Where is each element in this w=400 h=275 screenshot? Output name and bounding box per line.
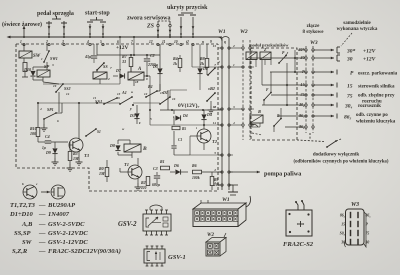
wire +12V rail <box>97 44 160 56</box>
svg-text:ukryty przycisk: ukryty przycisk <box>167 5 208 11</box>
resistor R10 <box>30 126 40 137</box>
module row y116 <box>278 115 302 117</box>
ground below T1 <box>135 183 142 190</box>
hidden pushbutton <box>178 13 196 37</box>
svg-text:3: 3 <box>232 105 235 109</box>
svg-text:86₂: 86₂ <box>340 214 346 218</box>
connector W1 label <box>218 29 226 35</box>
right label 30 <box>346 57 377 63</box>
transistor T1 <box>124 162 142 179</box>
main unit dashed border <box>16 44 218 191</box>
module switch Pr <box>278 51 288 64</box>
svg-text:Z: Z <box>263 47 267 52</box>
legend line 5 <box>22 239 88 246</box>
svg-text:86₅: 86₅ <box>299 113 305 118</box>
wire SP1 gnd <box>43 119 45 124</box>
svg-text:5: 5 <box>100 40 102 44</box>
clutch pedal switch <box>46 16 67 37</box>
switch SP1 <box>43 107 57 120</box>
ground below SP1 <box>41 124 48 131</box>
top bus wire <box>7 36 223 39</box>
svg-text:GSV-2-5VDC: GSV-2-5VDC <box>48 221 85 228</box>
svg-text:FRA2C-S2DC12V(90/30A): FRA2C-S2DC12V(90/30A) <box>48 248 121 255</box>
svg-text:30: 30 <box>346 57 353 63</box>
svg-text:2: 2 <box>213 168 216 172</box>
svg-text:15: 15 <box>301 82 305 87</box>
fuel pump arrow <box>230 171 302 178</box>
svg-text:SS,SP: SS,SP <box>14 230 31 237</box>
module relay S wires <box>252 123 260 127</box>
svg-text:oszcz. parkowania: oszcz. parkowania <box>358 72 398 77</box>
right label 865 <box>344 113 396 125</box>
tiny pin digits speckle <box>39 57 220 131</box>
right label 304 <box>344 104 381 110</box>
svg-text:b: b <box>22 182 24 186</box>
svg-text:33: 33 <box>121 59 126 64</box>
connector W2 rails <box>243 40 250 140</box>
svg-text:SP1: SP1 <box>47 107 54 112</box>
svg-text:D8: D8 <box>202 66 208 71</box>
svg-text:1M: 1M <box>99 171 105 176</box>
resistor R3 <box>42 142 79 164</box>
svg-text:—: — <box>38 202 46 209</box>
svg-text:18: 18 <box>135 80 139 84</box>
svg-text:680μ: 680μ <box>152 183 160 187</box>
relay SSr <box>93 72 107 79</box>
svg-text:start-stop: start-stop <box>85 11 110 17</box>
svg-text:12: 12 <box>144 92 148 96</box>
svg-text:+12V: +12V <box>363 49 377 55</box>
svg-text:GSV-1-12VDC: GSV-1-12VDC <box>48 239 88 246</box>
W3 pin names <box>298 47 306 129</box>
svg-text:R1: R1 <box>160 159 165 164</box>
wire T2 <box>190 125 204 150</box>
svg-text:100: 100 <box>30 131 36 136</box>
legend line 2 <box>9 211 70 218</box>
module switch B3 <box>273 114 282 127</box>
svg-text:T1: T1 <box>124 162 129 167</box>
svg-text:220: 220 <box>140 186 147 190</box>
svg-text:14: 14 <box>66 92 70 96</box>
switch A1 <box>119 90 133 105</box>
start-stop button <box>87 17 106 37</box>
svg-text:S0₆: S0₆ <box>340 232 346 236</box>
svg-text:30*: 30* <box>298 47 306 52</box>
pin numbers top edge <box>20 40 226 44</box>
relay FRA2C-S2 label <box>283 241 314 248</box>
svg-text:pedał sprzęgła: pedał sprzęgła <box>37 11 74 17</box>
wire SS relay <box>97 70 100 84</box>
svg-text:FRA2C-S2: FRA2C-S2 <box>283 241 314 248</box>
svg-text:75: 75 <box>366 232 370 236</box>
diode D3 <box>129 105 141 125</box>
svg-text:y: y <box>129 106 132 111</box>
svg-text:13: 13 <box>213 44 217 48</box>
wire SP to SS2 <box>33 62 47 82</box>
svg-text:17: 17 <box>196 105 200 109</box>
connector W3 package label <box>351 202 359 208</box>
svg-text:15: 15 <box>347 84 353 90</box>
transistor T3 <box>69 138 90 158</box>
svg-text:D5: D5 <box>152 64 158 69</box>
connector W2 label <box>240 29 248 35</box>
svg-text:t: t <box>196 126 197 130</box>
resistor R9 <box>210 172 220 190</box>
connector W3 pins <box>302 49 314 128</box>
svg-text:1k: 1k <box>173 61 177 66</box>
legend transistor pictogram left <box>22 182 38 199</box>
svg-text:A1: A1 <box>121 90 127 95</box>
svg-text:86₅: 86₅ <box>366 214 372 218</box>
legend transistor pictogram right <box>51 185 65 199</box>
svg-text:13: 13 <box>117 92 121 96</box>
svg-text:14: 14 <box>213 121 217 125</box>
svg-text:—: — <box>38 230 46 237</box>
W1-W2 links <box>233 48 239 125</box>
vert wire x134 <box>120 37 135 84</box>
svg-text:D8: D8 <box>109 143 115 148</box>
connector W3 package pin labels <box>340 214 372 245</box>
ground right of W1 a <box>228 185 238 195</box>
right label 30* <box>346 48 377 55</box>
service jumper ZS <box>157 21 171 37</box>
svg-text:3: 3 <box>51 63 54 67</box>
diode D10 <box>23 67 35 76</box>
svg-text:R5: R5 <box>182 127 186 131</box>
svg-text:2: 2 <box>107 77 110 81</box>
svg-text:—: — <box>38 221 46 228</box>
wire B1 <box>157 84 160 91</box>
switch SS2 <box>55 82 70 93</box>
module wires top <box>243 60 271 68</box>
svg-text:1N4007: 1N4007 <box>48 211 70 218</box>
svg-text:włożeniu kluczyka: włożeniu kluczyka <box>356 120 396 125</box>
diode D9b <box>201 110 211 126</box>
svg-text:11: 11 <box>93 96 96 100</box>
svg-text:8 stykowe: 8 stykowe <box>303 30 325 35</box>
module row y127 <box>285 126 302 128</box>
svg-text:4: 4 <box>232 121 235 125</box>
dashed to extra switch <box>297 133 341 148</box>
switch D1 blade <box>159 90 190 155</box>
svg-text:W1: W1 <box>222 197 230 203</box>
svg-text:1: 1 <box>20 40 22 44</box>
module vert x287 <box>286 63 288 105</box>
wire T3 emitter <box>78 151 80 158</box>
right label P <box>350 71 398 77</box>
svg-text:n: n <box>202 40 204 44</box>
right label 75 <box>347 94 395 105</box>
svg-text:SW: SW <box>22 239 33 246</box>
svg-text:1M: 1M <box>73 156 79 161</box>
svg-text:SW1: SW1 <box>50 56 58 61</box>
svg-text:—: — <box>38 211 46 218</box>
row wire y125 <box>150 109 222 125</box>
wire y103 right <box>133 90 187 103</box>
svg-text:GSV-2-12VDC: GSV-2-12VDC <box>48 230 88 237</box>
module relay Z <box>260 47 271 60</box>
connector W3 label <box>310 40 318 46</box>
ground below B2 <box>208 106 215 113</box>
svg-text:5: 5 <box>214 151 216 155</box>
transistor T2 <box>197 129 218 144</box>
svg-text:GSV-2: GSV-2 <box>118 221 137 228</box>
connector W1 package <box>193 196 251 227</box>
legend line 3 <box>21 221 85 228</box>
capacitor C5 <box>84 44 97 63</box>
svg-text:T3: T3 <box>84 153 90 158</box>
resistor R0 <box>99 160 109 182</box>
svg-text:R: R <box>258 109 261 114</box>
svg-text:C3: C3 <box>153 166 158 171</box>
svg-text:złącze: złącze <box>307 24 321 29</box>
diode D9 <box>45 142 58 158</box>
relay B <box>124 144 147 152</box>
svg-text:A,B: A,B <box>21 221 33 228</box>
svg-text:A: A <box>137 67 142 72</box>
svg-text:u: u <box>131 90 133 94</box>
plug bracket column <box>337 47 340 61</box>
label dodatkowy wylacznik <box>294 153 389 165</box>
vert wire x150 <box>149 76 151 111</box>
diode D5 <box>152 44 163 91</box>
wire current arrowheads <box>48 26 195 33</box>
svg-text:S,Z,R: S,Z,R <box>12 248 28 255</box>
diode D7 <box>115 68 125 79</box>
wire R6 to W1 <box>202 171 222 173</box>
svg-text:C: C <box>250 47 253 52</box>
label start-stop <box>85 11 110 17</box>
svg-text:2: 2 <box>232 44 235 48</box>
svg-text:D10: D10 <box>23 67 31 72</box>
svg-text:dodatkowy wyłącznik: dodatkowy wyłącznik <box>313 153 359 158</box>
bus corner into W1 <box>218 37 222 41</box>
0V rail text <box>178 102 198 109</box>
legend line 6 <box>12 248 121 255</box>
capacitor C4 <box>45 134 51 143</box>
W1 pin digits <box>213 44 217 185</box>
resistor R8 <box>200 44 209 75</box>
svg-text:30: 30 <box>340 241 345 245</box>
bus entry pins <box>23 44 194 46</box>
module box <box>251 48 297 140</box>
module to W3 links <box>300 50 302 127</box>
svg-text:BU290AP: BU290AP <box>47 202 76 209</box>
svg-text:D7: D7 <box>115 68 122 73</box>
label zlacze 8 stykowe <box>303 24 325 35</box>
svg-text:B2: B2 <box>209 86 215 91</box>
svg-text:+12V: +12V <box>116 45 128 51</box>
diode D6 <box>170 163 188 175</box>
package GSV-2 label <box>118 221 137 228</box>
ground below T3 <box>76 158 83 165</box>
capacitor C2 <box>144 53 158 67</box>
module switch F1 <box>263 88 272 101</box>
wire mid row y103 <box>62 102 120 104</box>
svg-text:wykonana wtyczka: wykonana wtyczka <box>337 27 378 32</box>
module vert x262 <box>261 60 263 105</box>
module row y50 stub <box>298 49 302 51</box>
wire SW coil <box>23 44 25 62</box>
relay SW <box>19 51 41 59</box>
svg-text:odb. czynne po: odb. czynne po <box>356 113 388 118</box>
svg-text:D1÷D10: D1÷D10 <box>9 211 33 218</box>
svg-text:3: 3 <box>61 40 64 44</box>
legend line 4 <box>14 230 88 237</box>
connector W2 package <box>206 233 226 256</box>
switch B2 <box>206 86 216 106</box>
label pedal sprzegla <box>37 11 74 17</box>
svg-text:samodzielnie: samodzielnie <box>343 21 371 26</box>
svg-text:SW: SW <box>33 54 41 59</box>
wire relay A <box>113 67 150 86</box>
row wire y84 <box>43 83 120 85</box>
svg-text:SS2: SS2 <box>64 86 70 91</box>
svg-text:(świece żarowe): (świece żarowe) <box>2 21 42 28</box>
label samodzielnie wykonana wtyczka <box>337 21 378 32</box>
package GSV-1 label <box>168 254 186 261</box>
svg-text:D9: D9 <box>45 150 51 155</box>
wire 0V rail <box>160 109 222 110</box>
svg-text:T1,T2,T3: T1,T2,T3 <box>10 202 36 209</box>
svg-text:15: 15 <box>341 223 345 227</box>
svg-text:—: — <box>38 248 46 255</box>
connector W2 pins <box>239 47 254 126</box>
svg-text:6: 6 <box>117 40 119 44</box>
wire base T1 <box>120 168 160 172</box>
svg-text:0V(12V): 0V(12V) <box>178 102 198 109</box>
resistor below SW <box>22 63 28 78</box>
wire SS2 down <box>43 82 59 112</box>
svg-text:4: 4 <box>39 107 42 111</box>
svg-text:+12V: +12V <box>363 57 377 63</box>
plug pins lower <box>336 70 338 119</box>
switch SS <box>96 62 108 71</box>
diode D8 <box>109 143 121 151</box>
bus junction dots <box>23 36 194 38</box>
connector W1 pins <box>218 47 233 186</box>
svg-text:W2: W2 <box>240 29 248 35</box>
svg-text:B: B <box>142 146 147 152</box>
module vert x295 <box>294 50 296 72</box>
svg-text:t2: t2 <box>186 40 189 44</box>
package GSV-1 <box>144 246 165 266</box>
module vert x271 <box>264 72 271 105</box>
relay FRA2C-S2 package <box>286 200 312 236</box>
svg-text:7: 7 <box>214 63 216 67</box>
svg-text:11: 11 <box>162 40 166 44</box>
wire relay B <box>118 140 132 158</box>
svg-text:W1: W1 <box>218 29 226 35</box>
wire SP1 right <box>56 103 62 113</box>
svg-text:1: 1 <box>233 63 235 67</box>
diode D2 blade <box>207 67 216 76</box>
row wire y103 <box>37 102 120 104</box>
label ukryty przycisk <box>167 5 208 11</box>
svg-text:sterownik silnika: sterownik silnika <box>358 85 395 90</box>
svg-text:2: 2 <box>45 40 48 44</box>
svg-text:12: 12 <box>149 40 153 44</box>
svg-text:75: 75 <box>347 94 353 100</box>
svg-text:30: 30 <box>300 55 305 60</box>
resistor R1 <box>160 159 170 170</box>
svg-text:W3: W3 <box>310 40 318 46</box>
svg-text:odb. zbędne przy: odb. zbędne przy <box>358 94 395 99</box>
svg-text:100k: 100k <box>192 176 200 180</box>
svg-text:30₄: 30₄ <box>344 104 353 110</box>
svg-text:15: 15 <box>160 91 164 95</box>
svg-text:86₅: 86₅ <box>344 115 352 121</box>
svg-text:R6: R6 <box>192 163 197 168</box>
connector W3 rails <box>306 46 313 133</box>
svg-text:C4: C4 <box>45 134 50 139</box>
module row y58 <box>250 57 302 59</box>
svg-text:1: 1 <box>214 181 216 185</box>
switch SW1 <box>43 44 58 63</box>
connector W3 package <box>345 209 367 247</box>
module label <box>249 43 289 48</box>
module row y105 <box>262 104 302 106</box>
relay R <box>250 109 263 123</box>
label ZS <box>146 24 155 30</box>
svg-text:S1: S1 <box>97 130 101 134</box>
W2 pin digits <box>232 44 235 125</box>
wire T1 collector <box>137 158 139 165</box>
svg-text:GSV-1: GSV-1 <box>168 254 186 261</box>
svg-text:T2: T2 <box>212 139 218 144</box>
relay SP <box>37 64 50 77</box>
connector W1 package label <box>222 197 230 203</box>
wtyczka pointer <box>341 33 352 46</box>
arrow to glow plugs <box>23 26 26 38</box>
connector W2 package label <box>207 233 214 238</box>
svg-text:75: 75 <box>301 92 305 97</box>
relay A <box>128 67 144 80</box>
svg-text:D3: D3 <box>129 113 135 118</box>
capacitor C3 <box>152 166 160 187</box>
vert wire x147 <box>146 66 148 77</box>
svg-text:pompa paliwa: pompa paliwa <box>264 171 301 178</box>
svg-text:zwora serwisowa: zwora serwisowa <box>127 16 171 22</box>
arrows to plug <box>314 49 334 118</box>
connector W1 rails <box>222 37 229 191</box>
switch B1 <box>145 84 158 98</box>
wire T1 emitter <box>137 179 139 183</box>
svg-text:D4: D4 <box>182 114 188 118</box>
svg-text:—: — <box>38 239 46 246</box>
svg-text:D4: D4 <box>206 112 212 117</box>
ground below R3 <box>67 164 74 171</box>
svg-text:(odbiorników czynnych po włoże: (odbiorników czynnych po włożeniu kluczy… <box>294 160 389 165</box>
svg-text:19: 19 <box>53 84 57 88</box>
svg-text:C1: C1 <box>178 138 182 142</box>
svg-text:C2: C2 <box>150 53 155 58</box>
wire R10 <box>38 103 45 142</box>
svg-text:n: n <box>214 105 216 109</box>
svg-text:4: 4 <box>217 60 220 64</box>
svg-text:R2: R2 <box>141 180 146 185</box>
resistor R4 <box>173 55 182 72</box>
legend arrow <box>41 191 50 194</box>
diode D8h <box>197 44 207 90</box>
svg-text:W3: W3 <box>351 202 359 208</box>
resistor R6 <box>192 163 202 180</box>
resistor R7 <box>121 54 133 72</box>
module vert x285 <box>274 108 281 132</box>
svg-text:7: 7 <box>131 40 133 44</box>
diode D4 <box>168 90 188 121</box>
svg-text:10: 10 <box>174 40 178 44</box>
